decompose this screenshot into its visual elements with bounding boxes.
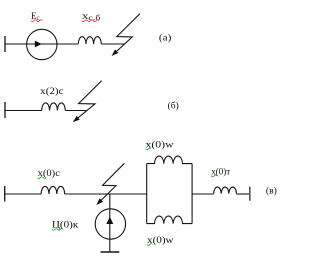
bottom terminal bar (circuit v) [101,251,120,253]
svg-text:(б): (б) [168,101,179,112]
red squiggle under x_c.b [82,20,99,22]
svg-text:Ц(0)к: Ц(0)к [52,220,79,230]
inductor x(0)t (circuit v) [214,187,237,194]
green squiggle under U(0)k [52,229,63,231]
source circle E (circuit a) [27,29,57,59]
terminal bar circuit b [4,102,6,118]
red squiggle under Ec [31,20,42,22]
svg-text:х(2)с: х(2)с [40,86,63,96]
bottom branch with inductor x(0)w [147,216,192,224]
green squiggle under x(0)w top [146,148,152,150]
wire circuit v middle [65,193,147,195]
fault lightning arrow (circuit b) [74,81,102,121]
wire circuit v left [5,193,41,195]
terminal bar circuit a [4,36,6,52]
wire loop to inductor T [192,193,214,195]
source circle U(0)k (circuit v) [95,209,125,239]
inductor x(0)c (circuit v) [41,186,65,194]
source arrow up (circuit v) [106,217,113,224]
wire circuit b right [65,110,86,112]
wire circuit a right [101,43,124,45]
wire inductor T to right terminal [237,193,250,195]
svg-text:(в): (в) [266,185,277,196]
svg-text:х(0)с: х(0)с [38,168,60,178]
inductor x_c.b (circuit a) [78,37,101,44]
inductor x(2)c (circuit b) [42,103,66,111]
parallel loop left side [146,164,148,224]
green squiggle under x(0)t [211,175,217,177]
fault lightning arrow (circuit v) [98,163,125,203]
wire vertical branch to source [109,194,111,252]
wire circuit a left [5,43,78,45]
terminal bar circuit v left [4,186,6,202]
fault lightning arrow (circuit a) [113,14,140,55]
svg-text:х(0)т: х(0)т [211,166,230,176]
right terminal bar (circuit v) [249,187,251,201]
green squiggle under x(0)c [38,177,46,179]
parallel loop right side [191,164,193,224]
svg-text:(а): (а) [159,32,171,43]
top branch with inductor x(0)w [147,156,192,164]
green squiggle under x(0)w bottom [147,244,153,246]
wire circuit b left [5,110,42,112]
source arrow (circuit a) [35,41,42,48]
